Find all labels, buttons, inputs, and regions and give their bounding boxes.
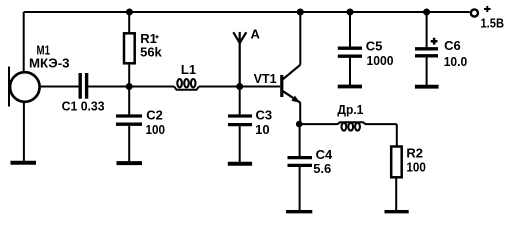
svg-text:С5: С5 — [366, 39, 383, 54]
svg-text:10.0: 10.0 — [444, 54, 468, 69]
svg-text:С4: С4 — [316, 147, 333, 162]
svg-text:А: А — [251, 26, 261, 41]
svg-text:1.5В: 1.5В — [481, 15, 505, 30]
svg-text:56k: 56k — [140, 44, 162, 59]
svg-text:L1: L1 — [181, 62, 196, 77]
svg-text:100: 100 — [406, 159, 426, 174]
svg-text:1000: 1000 — [367, 53, 394, 68]
svg-text:С2: С2 — [146, 107, 163, 122]
svg-text:С3: С3 — [256, 108, 273, 123]
svg-text:Др.1: Др.1 — [337, 102, 363, 117]
svg-text:VT1: VT1 — [254, 71, 277, 86]
svg-text:10: 10 — [255, 122, 269, 137]
svg-text:*: * — [155, 34, 159, 44]
svg-text:МКЭ-3: МКЭ-3 — [29, 55, 70, 70]
svg-text:100: 100 — [146, 122, 166, 137]
svg-text:С1 0.33: С1 0.33 — [62, 99, 105, 114]
svg-text:С6: С6 — [444, 38, 461, 53]
svg-text:5.6: 5.6 — [313, 161, 331, 176]
